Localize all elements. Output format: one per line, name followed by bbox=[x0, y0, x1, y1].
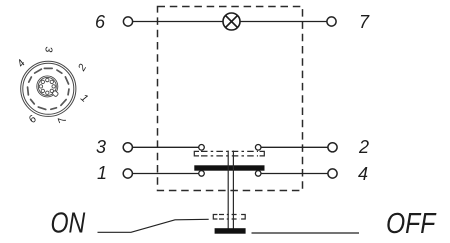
movable bridge alternate position (phantom) bbox=[194, 151, 264, 156]
svg-text:6: 6 bbox=[95, 12, 106, 32]
svg-text:1: 1 bbox=[97, 163, 107, 183]
movable contact bridge (closed) bbox=[194, 165, 264, 170]
lever line OFF side bbox=[252, 232, 360, 234]
terminal 3 bbox=[123, 143, 132, 152]
connector face view bbox=[21, 61, 76, 116]
wire contact to 2 bbox=[261, 146, 328, 148]
terminal 7 bbox=[327, 17, 336, 26]
switch body dashed outline bbox=[158, 7, 303, 191]
connector key notch bbox=[52, 90, 59, 97]
wire 6 to lamp bbox=[133, 21, 223, 23]
fixed contact 2 bbox=[255, 145, 261, 151]
connector inner ring bbox=[37, 76, 58, 97]
wire contact to 4 bbox=[261, 173, 328, 175]
lever line ON side bbox=[98, 219, 209, 232]
svg-text:2: 2 bbox=[358, 137, 369, 157]
svg-text:3: 3 bbox=[43, 46, 55, 52]
lever knob bbox=[215, 228, 246, 234]
wire 3 to contact bbox=[132, 146, 198, 148]
terminal 6 bbox=[123, 17, 132, 26]
terminal 2 bbox=[328, 143, 337, 152]
svg-text:4: 4 bbox=[358, 164, 368, 184]
connector pin holes bbox=[46, 78, 49, 81]
wire 1 to contact bbox=[132, 173, 198, 175]
lever phantom position bbox=[213, 215, 245, 220]
svg-text:OFF: OFF bbox=[386, 207, 437, 239]
svg-text:7: 7 bbox=[359, 12, 370, 32]
fixed contact 4 bbox=[255, 171, 261, 177]
svg-text:ON: ON bbox=[51, 206, 86, 239]
connector outer ring bbox=[21, 61, 76, 116]
fixed contact 1 bbox=[199, 171, 205, 177]
terminal 1 bbox=[123, 169, 132, 178]
fixed contact 3 bbox=[199, 145, 205, 151]
actuator shaft bbox=[228, 151, 233, 229]
svg-text:3: 3 bbox=[96, 137, 106, 157]
lamp bbox=[223, 13, 240, 30]
wire lamp to 7 bbox=[240, 21, 327, 23]
terminal 4 bbox=[328, 169, 337, 178]
connector key slots bbox=[27, 68, 70, 111]
